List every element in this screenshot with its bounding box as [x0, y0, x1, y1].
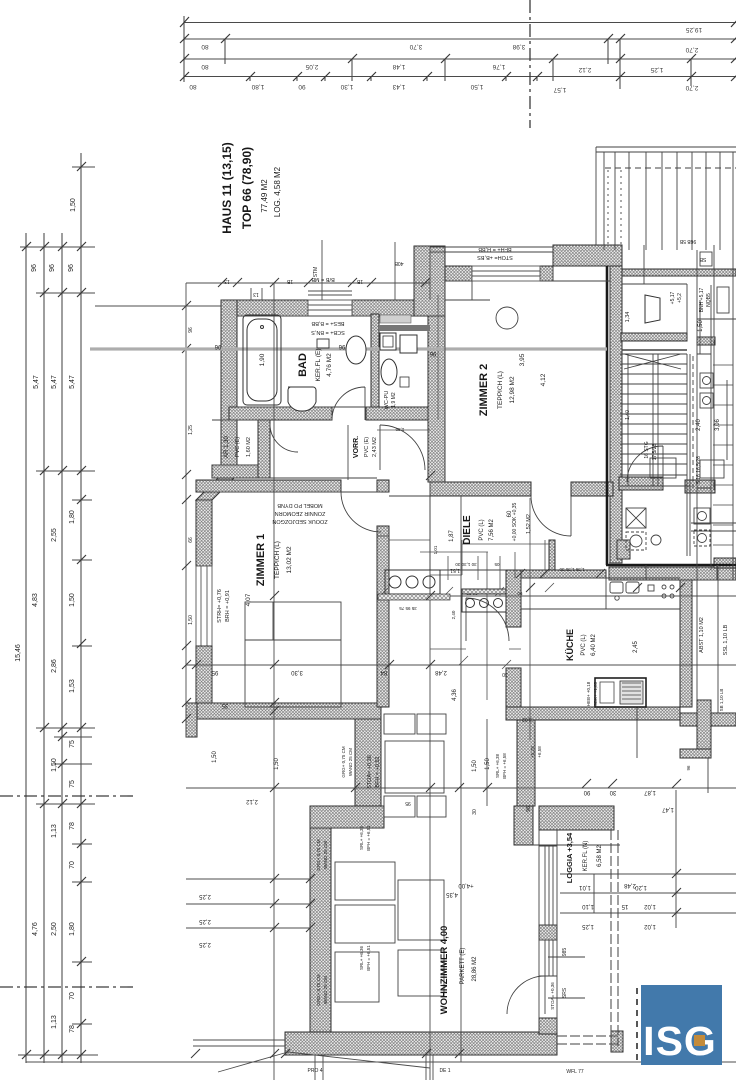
svg-text:PVC (E): PVC (E) [364, 437, 370, 457]
svg-text:3,95: 3,95 [519, 353, 526, 366]
svg-text:GRG+ 0,75 CM: GRG+ 0,75 CM [341, 746, 346, 777]
svg-text:1,25: 1,25 [650, 66, 663, 73]
kueche interior counter [521, 578, 680, 609]
room label bad [259, 349, 333, 382]
svg-text:1,10: 1,10 [582, 903, 594, 909]
svg-text:13,02 M2: 13,02 M2 [286, 546, 293, 573]
svg-text:1,50: 1,50 [274, 758, 280, 770]
svg-text:05: 05 [494, 562, 500, 567]
wall step diagonal [196, 475, 237, 500]
svg-text:1,30: 1,30 [340, 83, 353, 90]
svg-text:15,46: 15,46 [15, 644, 22, 662]
svg-text:SBK+ +1,85: SBK+ +1,85 [593, 681, 598, 706]
wc flush box [400, 335, 417, 353]
svg-text:+5,78: +5,78 [530, 746, 535, 758]
wall kueche right [680, 570, 692, 707]
svg-text:SSL 1,10 LB: SSL 1,10 LB [723, 624, 729, 655]
svg-text:1,50: 1,50 [472, 760, 478, 772]
wall zimmer1 top [196, 480, 341, 492]
svg-text:+5,17: +5,17 [670, 291, 676, 304]
left dimension numbers (rotated) [15, 198, 77, 1033]
svg-text:985: 985 [562, 948, 568, 957]
dim labels inside plan rot180 [199, 343, 674, 1075]
top dimension numbers (rotated 180) [189, 26, 702, 93]
door arc entrance [627, 446, 663, 482]
svg-text:BFH = +0,51: BFH = +0,51 [375, 756, 381, 787]
long reference line vertical C [460, 496, 462, 1062]
svg-text:TOP 66 (78,90): TOP 66 (78,90) [240, 147, 254, 229]
wall kueche left upper [506, 570, 521, 627]
svg-text:70: 70 [69, 992, 76, 1000]
unit boundary thick lines [606, 266, 736, 565]
svg-text:2,55: 2,55 [51, 528, 58, 542]
svg-text:1,50: 1,50 [51, 758, 58, 772]
kueche dim vertical [529, 498, 531, 740]
room label loggia [565, 832, 603, 883]
diele dim noise lines [377, 536, 554, 700]
em box bad [317, 339, 329, 348]
svg-text:96: 96 [188, 327, 194, 333]
svg-text:2,12: 2,12 [246, 798, 258, 804]
svg-text:BRH = +0,91: BRH = +0,91 [225, 590, 231, 622]
section line gray [90, 347, 607, 350]
svg-text:1,34: 1,34 [625, 312, 631, 323]
svg-text:1,48: 1,48 [392, 63, 405, 70]
plan edge dim line top [186, 283, 430, 737]
svg-text:1,50: 1,50 [698, 320, 704, 332]
svg-text:30 1,30 30: 30 1,30 30 [455, 562, 477, 567]
svg-text:95: 95 [211, 669, 218, 675]
svg-text:STRH= +0,76: STRH= +0,76 [217, 589, 223, 623]
svg-text:96: 96 [526, 806, 532, 812]
svg-text:96B 5B: 96B 5B [679, 238, 696, 244]
svg-text:LOG. 4,58 M2: LOG. 4,58 M2 [273, 166, 282, 217]
top dash-dot axis [529, 0, 531, 128]
long reference line vertical D [486, 719, 488, 806]
svg-text:13: 13 [253, 291, 259, 297]
stairs cross brace [624, 354, 681, 369]
right units vertical lines [637, 240, 736, 928]
svg-text:MOBEL PO DYNB: MOBEL PO DYNB [277, 502, 323, 508]
svg-text:3,06: 3,06 [715, 419, 721, 431]
svg-text:4,07: 4,07 [245, 593, 252, 606]
svg-text:1,80: 1,80 [251, 83, 264, 90]
wall corner bottom-left [186, 703, 197, 737]
left dash-dot axes [0, 795, 133, 797]
svg-text:2,43 M2: 2,43 M2 [372, 437, 378, 457]
wall kueche top thin [521, 570, 606, 578]
svg-text:2,05: 2,05 [305, 63, 318, 70]
door arc zimmer2 [531, 496, 571, 536]
loggia boundary dashed [557, 830, 618, 1046]
svg-text:1B: 1B [356, 278, 363, 284]
svg-text:VORR.: VORR. [353, 436, 360, 458]
svg-text:5,47: 5,47 [51, 375, 58, 389]
svg-text:+4,00: +4,00 [458, 882, 474, 888]
vestibule wall lines [609, 284, 690, 563]
wall divider bad wc [371, 314, 379, 412]
wall diele entrance blocks [549, 540, 555, 570]
dim lines left bottom [186, 879, 310, 928]
svg-text:GRG+ 0,75 CM: GRG+ 0,75 CM [316, 839, 321, 870]
svg-text:SCB+ = BN,S: SCB+ = BN,S [311, 329, 345, 335]
svg-text:1,87: 1,87 [644, 789, 656, 795]
svg-text:AR 1,30: AR 1,30 [224, 436, 230, 458]
wohnzimmer sofa group [335, 862, 444, 1002]
wohnzimmer loggia door arc [507, 976, 545, 1014]
svg-text:2,25: 2,25 [199, 918, 211, 924]
wall diele north [430, 482, 531, 496]
svg-text:2,48: 2,48 [435, 669, 447, 675]
wall zimmer2 top right section [553, 245, 622, 266]
svg-text:TEPPICH (L): TEPPICH (L) [274, 541, 281, 579]
svg-text:ZIMMER 2: ZIMMER 2 [478, 364, 490, 417]
svg-text:WFL 77: WFL 77 [566, 1069, 584, 1075]
svg-text:1,50: 1,50 [485, 758, 491, 770]
svg-text:1,80: 1,80 [69, 510, 76, 524]
window sill marks above top wall [251, 240, 395, 480]
svg-text:ZONNIR ZEOMORN: ZONNIR ZEOMORN [275, 510, 326, 516]
svg-text:WOHNZIMMER 4,00: WOHNZIMMER 4,00 [439, 926, 450, 1015]
svg-text:96: 96 [686, 765, 691, 771]
wall corridor west [355, 719, 381, 806]
bottom long line [26, 1061, 736, 1063]
svg-text:1B: 1B [286, 278, 293, 284]
washer symbols right unit [626, 373, 713, 550]
svg-text:66: 66 [188, 537, 194, 543]
svg-text:7,56 M2: 7,56 M2 [489, 519, 495, 541]
svg-text:STOA= +0,36: STOA= +0,36 [550, 982, 555, 1010]
svg-text:SRL+ +6,36: SRL+ +6,36 [359, 826, 364, 851]
stair right column extra lines [622, 245, 736, 580]
svg-text:ABST 1,10 M2: ABST 1,10 M2 [699, 617, 705, 653]
wall loggia top [539, 806, 614, 830]
svg-text:30: 30 [472, 809, 478, 815]
wall wohnzimmer bottom [285, 1032, 557, 1055]
svg-text:3,98: 3,98 [512, 43, 525, 50]
wall wohnzimmer right corner block [514, 806, 533, 845]
bottom double dim [193, 1040, 285, 1046]
svg-text:1,20: 1,20 [635, 884, 647, 890]
wall below bad left [229, 407, 332, 420]
wall zimmer1 right [377, 526, 389, 707]
door arc vorraum [380, 425, 425, 470]
diele outline [389, 482, 506, 570]
svg-text:1,25: 1,25 [188, 425, 194, 435]
svg-text:40B: 40B [394, 260, 404, 266]
balcony rail top [596, 147, 736, 250]
window zimmer2 top [472, 266, 540, 281]
svg-text:1,36 1,30 30: 1,36 1,30 30 [559, 567, 585, 572]
svg-text:HEB+ +0,18: HEB+ +0,18 [586, 681, 591, 706]
svg-text:1,51: 1,51 [450, 567, 460, 573]
svg-text:3,70: 3,70 [409, 43, 422, 50]
svg-text:STOH= +B,BS: STOH= +B,BS [477, 254, 513, 260]
svg-text:1,01: 1,01 [433, 545, 438, 554]
svg-text:BFH = +6,51: BFH = +6,51 [366, 825, 371, 851]
long dim line y788 [186, 787, 736, 789]
svg-text:1,57: 1,57 [553, 86, 566, 93]
svg-text:BFH = +6,51: BFH = +6,51 [366, 945, 371, 971]
top dimension chain lines [184, 16, 736, 89]
svg-text:5,47: 5,47 [33, 375, 40, 389]
svg-text:30: 30 [609, 789, 616, 795]
svg-text:1,43: 1,43 [392, 83, 405, 90]
wall block loggia low corner [539, 1018, 557, 1034]
svg-text:2,25: 2,25 [199, 941, 211, 947]
svg-text:TEPPICH (L): TEPPICH (L) [497, 371, 504, 409]
svg-text:2,40: 2,40 [451, 610, 456, 619]
wall below ar [212, 465, 258, 478]
svg-text:1,13: 1,13 [51, 824, 58, 838]
svg-text:PRO 4: PRO 4 [307, 1068, 322, 1074]
wc cistern [380, 333, 396, 350]
room label zimmer1 [245, 534, 293, 607]
radiator diele [378, 570, 450, 600]
long dim line y665 [186, 664, 736, 666]
svg-text:BES+ = B,BB: BES+ = B,BB [311, 320, 344, 326]
svg-text:35 95 75: 35 95 75 [399, 606, 417, 611]
svg-text:KER.FL (N): KER.FL (N) [583, 841, 589, 872]
long dim line y596 [380, 595, 736, 597]
svg-text:78: 78 [69, 822, 76, 830]
wall left exterior zimmer1 lower [196, 646, 212, 719]
svg-text:+0,00 SOK +0,35: +0,00 SOK +0,35 [512, 502, 518, 541]
svg-text:15: 15 [621, 903, 628, 909]
svg-text:96: 96 [214, 343, 221, 349]
zimmer2 room outline inner [430, 247, 736, 482]
svg-text:KER.FL (E): KER.FL (E) [315, 349, 322, 382]
svg-text:ISG: ISG [643, 1018, 717, 1064]
room label zimmer2 [478, 353, 547, 416]
svg-text:90: 90 [517, 591, 523, 596]
ISG logo [636, 988, 638, 1064]
svg-text:1,9 M2: 1,9 M2 [391, 392, 397, 408]
svg-text:SRS: SRS [562, 987, 568, 998]
wc dim line [377, 429, 430, 431]
svg-text:12,98 M2: 12,98 M2 [509, 376, 516, 403]
wall below wc [366, 407, 430, 420]
svg-text:30: 30 [502, 671, 508, 677]
wc shelf gray [380, 315, 411, 323]
svg-text:KÜCHE: KÜCHE [565, 629, 575, 661]
svg-text:1,02: 1,02 [644, 903, 656, 909]
svg-text:3,02: 3,02 [522, 716, 532, 722]
svg-text:28,86 M2: 28,86 M2 [472, 956, 478, 982]
svg-text:80: 80 [189, 83, 197, 90]
room label vorraum [353, 436, 378, 458]
svg-text:1,50: 1,50 [470, 83, 483, 90]
kitchen top ticks [516, 569, 605, 578]
svg-text:75: 75 [69, 740, 76, 748]
svg-text:13: 13 [224, 278, 230, 284]
sill labels [253, 260, 403, 297]
zimmer2 table [496, 307, 518, 329]
left dimension tick slashes [22, 162, 86, 1059]
bottom-left diagonal marks [218, 1052, 430, 1072]
svg-text:4,35: 4,35 [446, 891, 458, 897]
wohnzimmer right windows [533, 830, 620, 1032]
svg-text:77,49 M2: 77,49 M2 [260, 179, 269, 213]
svg-text:96: 96 [338, 343, 345, 349]
svg-text:4,36: 4,36 [452, 689, 458, 701]
window zimmer1 left [196, 566, 212, 646]
svg-text:1,02: 1,02 [644, 923, 656, 929]
wall top exterior left part [221, 300, 308, 316]
svg-text:2,86: 2,86 [51, 659, 58, 673]
svg-text:SB 1,10 LB: SB 1,10 LB [719, 689, 724, 712]
wall loggia bottom corner [611, 1031, 623, 1052]
svg-text:B/B = MB: B/B = MB [311, 276, 335, 282]
svg-text:1,50: 1,50 [70, 198, 77, 212]
wc lintel dark [379, 325, 430, 331]
cabinet diele [462, 589, 506, 612]
svg-text:6,40 M2: 6,40 M2 [591, 634, 597, 656]
wall top exterior right part [352, 300, 425, 316]
wall stairwell west [610, 266, 622, 563]
svg-text:5,16 16,5/28: 5,16 16,5/28 [696, 456, 702, 484]
svg-text:60: 60 [507, 510, 513, 517]
svg-text:90: 90 [298, 83, 306, 90]
svg-text:SRL+ +6,36: SRL+ +6,36 [359, 946, 364, 971]
svg-text:4,12: 4,12 [540, 373, 547, 386]
svg-text:STOA= +0,36: STOA= +0,36 [367, 755, 373, 789]
wall kueche bottom [506, 707, 680, 720]
svg-text:1,87: 1,87 [449, 530, 455, 542]
svg-text:WC-PU: WC-PU [384, 391, 390, 410]
wall wohnzimmer top-left block [310, 806, 384, 828]
door arc kueche [466, 598, 509, 641]
svg-text:5,47: 5,47 [69, 375, 76, 389]
wall neighbor bottom right [680, 713, 736, 726]
dining table [384, 714, 446, 817]
kueche oven block [595, 678, 646, 707]
svg-text:ZOOUK SEDJOZGON: ZOOUK SEDJOZGON [272, 518, 327, 524]
svg-text:70: 70 [69, 861, 76, 869]
svg-text:2,45: 2,45 [633, 641, 639, 653]
right column small boxes [650, 252, 729, 478]
svg-text:PVC (E): PVC (E) [235, 437, 241, 457]
svg-text:4,83: 4,83 [32, 593, 39, 607]
wall vestibule south [621, 333, 687, 341]
svg-text:1,01: 1,01 [579, 884, 591, 890]
svg-text:ZIMMER 1: ZIMMER 1 [255, 534, 267, 587]
svg-text:19,25: 19,25 [685, 26, 702, 33]
door arc zimmer1 [341, 492, 381, 532]
room label wohnzimmer [439, 926, 478, 1015]
wc toilet [381, 359, 397, 385]
svg-text:35: 35 [221, 702, 228, 708]
entrance door symbol [645, 295, 660, 323]
room label kueche [565, 629, 639, 661]
dim lines right bottom [560, 874, 736, 913]
svg-text:1,50: 1,50 [188, 615, 194, 625]
svg-text:96: 96 [68, 264, 75, 272]
wall block loggia mid [539, 925, 557, 940]
svg-text:2,12: 2,12 [578, 66, 591, 73]
svg-text:80: 80 [201, 63, 209, 70]
svg-text:STM: STM [313, 267, 319, 278]
wall wc right / shaft [414, 246, 445, 316]
svg-text:2,48: 2,48 [624, 882, 636, 888]
svg-text:1,80: 1,80 [69, 922, 76, 936]
svg-text:1,40: 1,40 [625, 410, 631, 420]
svg-text:+5,2: +5,2 [677, 293, 683, 303]
svg-text:2,40: 2,40 [696, 419, 702, 431]
room label ar [224, 436, 252, 458]
tiny annotation texts [212, 238, 729, 1010]
room label wc [384, 391, 397, 410]
svg-text:HAUS 11 (13,15): HAUS 11 (13,15) [220, 142, 234, 233]
svg-text:17,5/28: 17,5/28 [652, 443, 658, 460]
svg-text:BFH = +6,58: BFH = +6,58 [502, 753, 507, 779]
tick slashes inside plan [191, 471, 685, 1058]
svg-text:1,50: 1,50 [69, 593, 76, 607]
svg-text:78: 78 [69, 1025, 76, 1033]
svg-text:2,70: 2,70 [685, 46, 698, 53]
bidet bad [288, 387, 316, 411]
svg-text:1,25: 1,25 [582, 923, 594, 929]
left dimension chain lines [18, 153, 98, 1063]
svg-text:95: 95 [405, 800, 411, 806]
bathtub [243, 315, 281, 405]
svg-text:PVC (L): PVC (L) [581, 634, 587, 655]
svg-text:1,52 M2: 1,52 M2 [526, 514, 532, 534]
svg-text:1,90: 1,90 [259, 353, 266, 366]
wall zimmer2 top left section [445, 266, 472, 281]
svg-text:1,53: 1,53 [69, 679, 76, 693]
wall ar right [258, 420, 270, 478]
door arc bad [332, 387, 365, 420]
wall kueche left lower [506, 668, 521, 707]
svg-text:1,50: 1,50 [212, 751, 218, 763]
svg-text:1,76: 1,76 [492, 63, 505, 70]
svg-text:WAND 25 CM: WAND 25 CM [348, 748, 353, 776]
svg-text:2,25: 2,25 [199, 893, 211, 899]
long reference line vertical A [273, 283, 275, 1080]
svg-text:3,30: 3,30 [291, 669, 303, 675]
wall bottom exterior zimmer1 [188, 703, 381, 719]
svg-text:NQB5: NQB5 [706, 293, 712, 307]
svg-text:75: 75 [69, 780, 76, 788]
svg-text:PARKETT (E): PARKETT (E) [460, 948, 466, 985]
svg-text:2,50: 2,50 [51, 922, 58, 936]
svg-text:6,58 M2: 6,58 M2 [597, 845, 603, 867]
svg-text:4,76 M2: 4,76 M2 [326, 353, 333, 377]
title block HAUS 11 TOP 66 [220, 142, 282, 233]
room label diele [449, 502, 532, 544]
svg-text:90: 90 [583, 789, 590, 795]
svg-text:1,30: 1,30 [395, 427, 404, 432]
wall right units hatch pieces [619, 477, 663, 490]
svg-text:GRG+ 0,75 CM: GRG+ 0,75 CM [316, 974, 321, 1005]
top dimension tick slashes [180, 17, 736, 81]
svg-text:PVC (L): PVC (L) [479, 519, 485, 540]
svg-text:80: 80 [201, 43, 209, 50]
svg-text:WAND 25 CM: WAND 25 CM [323, 841, 328, 869]
svg-text:+6,58: +6,58 [537, 746, 542, 758]
bottom wall edge verticals [315, 1055, 433, 1080]
svg-text:96: 96 [49, 264, 56, 272]
wall balcony top band [622, 269, 736, 276]
svg-text:BFH+ = H,BB: BFH+ = H,BB [478, 246, 512, 252]
svg-text:16 STG: 16 STG [644, 441, 650, 458]
zimmer1 bed [245, 602, 341, 707]
svg-text:SB: SB [699, 256, 706, 262]
svg-text:1,13: 1,13 [51, 1015, 58, 1029]
svg-text:84: 84 [380, 669, 387, 675]
door arc ar [270, 424, 298, 452]
